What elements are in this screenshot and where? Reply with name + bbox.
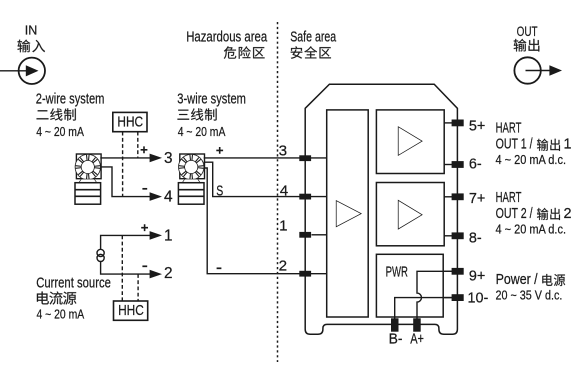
label 危险区: [224, 46, 265, 58]
svg-text:1: 1: [564, 137, 572, 153]
svg-text:Power /: Power /: [496, 272, 538, 288]
node arrow to terminal 4 (2-wire -): [150, 192, 162, 201]
wire 3-wire - to device terminal 2: [204, 168, 327, 274]
svg-text:2: 2: [564, 206, 572, 222]
label 输出: [514, 39, 540, 52]
svg-text:HHC: HHC: [118, 303, 144, 319]
op-amp (output 2): [399, 201, 422, 228]
wire terminal 1 stub to input stage: [312, 234, 327, 236]
svg-text:2: 2: [279, 257, 287, 274]
label 输出 1: [537, 139, 560, 151]
node OUT signal-flow symbol: [514, 57, 540, 83]
wire 9+ to A+ (with hop over 10- wire): [417, 271, 457, 330]
wire HHC dashed to + line: [137, 132, 139, 158]
label plus current source: [141, 224, 148, 231]
svg-text:Current source: Current source: [36, 276, 111, 292]
output 2 stage box: [376, 183, 444, 246]
wire 2-wire + to terminal 3: [100, 157, 150, 159]
svg-text:9+: 9+: [469, 268, 485, 284]
label plus 3-wire: [216, 147, 223, 154]
PWR power supply box: [376, 254, 443, 317]
label 二线制: [37, 108, 76, 120]
svg-text:2: 2: [164, 265, 173, 282]
svg-text:OUT 1 /: OUT 1 /: [496, 137, 533, 153]
terminal 1 (device): [299, 232, 311, 238]
wire stub to terminal 6-: [444, 164, 457, 166]
svg-text:4 ~ 20 mA d.c.: 4 ~ 20 mA d.c.: [496, 222, 567, 237]
wire stub to terminal 9+: [444, 270, 457, 272]
svg-text:8-: 8-: [469, 231, 482, 247]
terminal A+ (bus): [413, 318, 421, 331]
svg-text:HHC: HHC: [117, 115, 143, 131]
label minus current source: [142, 265, 147, 267]
svg-text:S: S: [216, 183, 223, 200]
output 1 stage box: [376, 110, 444, 174]
svg-text:A+: A+: [410, 331, 424, 347]
wire IN arrow: [0, 70, 26, 72]
svg-text:HART: HART: [496, 190, 522, 206]
svg-text:7+: 7+: [469, 191, 485, 207]
wire 2-wire - to terminal 4: [100, 167, 150, 197]
label 三线制: [177, 108, 216, 120]
terminal 9+ (device): [452, 268, 464, 275]
wire HHC2 dashed to - line: [137, 274, 139, 301]
terminal 5+ (device): [452, 120, 464, 127]
svg-text:HART: HART: [496, 121, 522, 137]
wire HHC dashed to - line: [122, 132, 124, 197]
svg-text:20 ~ 35 V d.c.: 20 ~ 35 V d.c.: [496, 288, 563, 303]
transmitter 2-wire T1: [75, 154, 101, 204]
op-amp (input stage): [337, 201, 361, 226]
svg-text:OUT: OUT: [517, 23, 538, 39]
svg-text:Hazardous area: Hazardous area: [186, 29, 267, 46]
op-amp (output 1): [399, 127, 422, 154]
terminal 8- (device): [452, 232, 464, 239]
wire 3-wire + to device terminal 3: [204, 157, 327, 159]
terminal 3 (device): [299, 155, 311, 161]
svg-text:4: 4: [164, 188, 173, 205]
node arrow to terminal 3 (2-wire +): [150, 154, 162, 163]
svg-text:4 ~ 20 mA: 4 ~ 20 mA: [37, 306, 85, 321]
current source symbol: [97, 249, 104, 256]
svg-text:1: 1: [279, 217, 287, 234]
label plus 2-wire: [141, 146, 148, 153]
HHC handheld communicator (2-wire): [113, 112, 147, 131]
terminal 6- (device): [452, 161, 464, 168]
svg-text:1: 1: [164, 227, 173, 244]
label 输出 2: [537, 208, 560, 220]
label 安全区: [291, 46, 331, 58]
isolator device housing U1: [305, 84, 457, 334]
label minus 3-wire: [217, 267, 222, 269]
transmitter 3-wire T2: [178, 154, 204, 204]
svg-text:5+: 5+: [469, 118, 485, 134]
node arrow to terminal 2 (source -): [150, 270, 162, 279]
hazardous/safe area separator (dotted): [277, 22, 279, 362]
terminal 7+ (device): [452, 193, 464, 200]
svg-text:3: 3: [279, 143, 287, 160]
svg-text:Safe area: Safe area: [290, 29, 336, 46]
svg-text:4 ~ 20 mA: 4 ~ 20 mA: [36, 124, 84, 139]
label 输入: [17, 40, 45, 53]
terminal 4 (device): [299, 194, 311, 200]
wire 10- to B-: [395, 298, 458, 330]
wire current source - to terminal 2: [101, 262, 150, 275]
label 电流源: [37, 291, 76, 304]
wire OUT arrow: [526, 70, 551, 72]
wire 3-wire S to device terminal 4: [204, 162, 327, 196]
node IN signal-flow symbol: [19, 58, 45, 84]
svg-text:IN: IN: [25, 24, 38, 38]
svg-text:4: 4: [280, 182, 288, 199]
input amplifier stage box: [327, 110, 369, 317]
label 电源: [542, 274, 565, 286]
wire stub to terminal 10-: [444, 297, 457, 299]
wire stub to terminal 8-: [444, 235, 457, 237]
svg-text:OUT 2 /: OUT 2 /: [496, 206, 533, 222]
wire stub to terminal 5+: [444, 122, 457, 124]
terminal B- (bus): [391, 318, 399, 331]
wire current source + to terminal 1: [101, 235, 150, 249]
svg-text:2-wire system: 2-wire system: [36, 92, 105, 108]
svg-text:4 ~ 20 mA d.c.: 4 ~ 20 mA d.c.: [496, 152, 567, 167]
node arrow to terminal 1 (source +): [150, 231, 162, 240]
terminal 2 (device): [299, 271, 311, 277]
svg-text:3: 3: [164, 150, 173, 167]
svg-text:10-: 10-: [468, 291, 489, 307]
svg-text:B-: B-: [389, 331, 403, 347]
wire HHC2 dashed to + line: [121, 235, 123, 301]
terminal 10- (device): [452, 294, 464, 301]
label minus 2-wire: [142, 188, 147, 190]
wire stub to terminal 7+: [444, 196, 457, 198]
svg-text:PWR: PWR: [386, 265, 408, 281]
svg-text:6-: 6-: [469, 157, 482, 173]
svg-text:3-wire system: 3-wire system: [177, 92, 246, 108]
svg-text:4 ~ 20 mA: 4 ~ 20 mA: [178, 124, 226, 139]
HHC handheld communicator (current source): [114, 301, 148, 320]
